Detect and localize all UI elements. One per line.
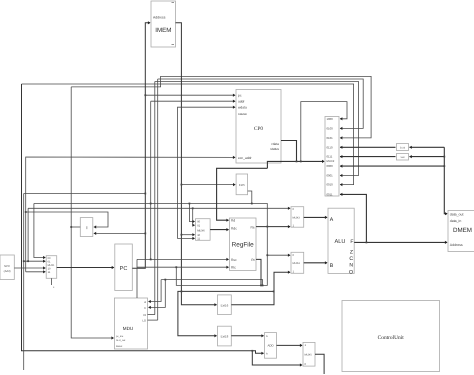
svg-text:MDU: MDU — [123, 326, 133, 331]
svg-text:RegFile: RegFile — [232, 241, 254, 248]
svg-text:10: 10 — [197, 234, 200, 237]
svg-text:rdata: rdata — [271, 142, 279, 146]
svg-text:HI: HI — [143, 314, 146, 317]
svg-text:0011: 0011 — [327, 193, 333, 197]
svg-text:Rdc: Rdc — [231, 227, 237, 231]
svg-text:5x16: 5x16 — [400, 146, 406, 149]
svg-text:Z: Z — [350, 250, 353, 256]
svg-text:IMEM: IMEM — [155, 27, 171, 34]
svg-text:0110: 0110 — [327, 145, 333, 149]
svg-text:N: N — [349, 263, 353, 269]
svg-text:data_in: data_in — [450, 219, 462, 223]
svg-text:MUX3: MUX3 — [293, 217, 301, 220]
svg-text:C: C — [349, 256, 353, 262]
svg-text:exc_addr: exc_addr — [238, 156, 252, 160]
svg-text:5x8: 5x8 — [401, 156, 406, 159]
svg-text:addr: addr — [238, 99, 246, 103]
svg-text:Rd: Rd — [231, 219, 235, 223]
svg-text:DMEM: DMEM — [453, 227, 472, 234]
svg-text:00: 00 — [197, 220, 200, 223]
svg-text:01: 01 — [197, 224, 200, 227]
svg-text:wdata: wdata — [238, 106, 247, 110]
svg-text:MUX6: MUX6 — [197, 230, 205, 233]
svg-text:0000: 0000 — [327, 164, 334, 168]
svg-text:ControlUnit: ControlUnit — [378, 335, 405, 341]
svg-text:A: A — [330, 217, 334, 223]
svg-text:Ext16: Ext16 — [221, 303, 229, 307]
svg-text:MUX4: MUX4 — [293, 262, 301, 265]
svg-text:B: B — [330, 263, 334, 269]
svg-text:NPC: NPC — [4, 264, 10, 268]
svg-text:Rs: Rs — [250, 226, 254, 230]
svg-text:Reset: Reset — [116, 345, 123, 348]
svg-text:Rt: Rt — [251, 258, 254, 262]
svg-text:Ext5: Ext5 — [239, 183, 245, 187]
svg-text:Rtc: Rtc — [231, 266, 236, 270]
svg-text:||: || — [86, 226, 88, 230]
svg-text:pc_mu: pc_mu — [116, 335, 124, 338]
svg-text:A: A — [144, 301, 146, 304]
svg-text:ADD: ADD — [267, 344, 273, 348]
svg-text:ALU: ALU — [335, 239, 346, 245]
svg-text:F: F — [350, 239, 353, 245]
svg-text:LO: LO — [142, 319, 146, 322]
svg-text:MUX2: MUX2 — [327, 159, 335, 163]
svg-text:status: status — [270, 147, 279, 151]
svg-text:Ext18: Ext18 — [221, 335, 229, 339]
svg-text:ALU_out: ALU_out — [116, 339, 126, 342]
svg-text:PC: PC — [120, 266, 128, 272]
svg-text:pc: pc — [238, 94, 242, 98]
svg-text:Rsc: Rsc — [231, 258, 237, 262]
svg-text:Address: Address — [450, 243, 463, 247]
svg-text:1000: 1000 — [327, 117, 334, 121]
svg-text:0100: 0100 — [327, 127, 334, 131]
svg-text:O: O — [349, 269, 353, 275]
svg-text:0010: 0010 — [327, 183, 334, 187]
svg-text:cause: cause — [238, 112, 247, 116]
svg-text:Address: Address — [153, 15, 166, 19]
svg-text:CP0: CP0 — [254, 126, 263, 132]
svg-text:0101: 0101 — [327, 136, 334, 140]
svg-text:(Add): (Add) — [4, 269, 11, 273]
svg-text:0001: 0001 — [327, 174, 334, 178]
svg-text:data_out: data_out — [450, 212, 464, 216]
svg-text:MUX5: MUX5 — [305, 354, 313, 357]
